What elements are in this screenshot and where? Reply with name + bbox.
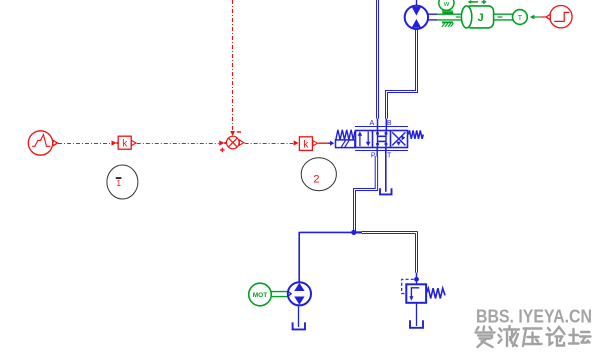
shaft: inertia to torque sensor <box>494 14 513 20</box>
svg-text:T: T <box>387 153 392 160</box>
svg-text:MOT: MOT <box>253 292 267 299</box>
arrowhead into summer <box>219 140 224 145</box>
direction arrow above J <box>468 0 487 4</box>
speed sensor w <box>439 0 454 13</box>
char 坛 <box>569 329 591 344</box>
rotary load J (inertia) <box>461 6 493 28</box>
minus sign at summer top input <box>237 131 241 133</box>
arrowhead into k1 <box>112 140 117 145</box>
gain block k2 <box>299 137 317 151</box>
junction node (relief pilot tap) <box>414 277 419 282</box>
svg-text:B: B <box>387 120 392 127</box>
svg-text:A: A <box>369 120 374 127</box>
pipe A: valve port A up to top edge (double line) <box>377 0 379 131</box>
gain block k1 <box>118 136 136 149</box>
char 压 <box>523 329 542 347</box>
proportional valve U1: solenoid box <box>336 140 355 148</box>
main supply line (horizontal, double) <box>300 232 418 234</box>
signal source W1 (duty-cycle input, left) <box>28 131 57 155</box>
rotary ground hatch under shaft <box>442 22 453 26</box>
valve right position: crossed arrows <box>392 132 405 145</box>
char 论 <box>547 327 565 346</box>
shaft: MOT to pump <box>271 292 288 297</box>
prime mover MOT <box>249 283 272 306</box>
torque sensor T <box>513 10 528 25</box>
summing junction (comparator) <box>227 136 244 149</box>
pipe: supply down to pump <box>298 232 300 283</box>
svg-text:BBS. IYEYA.CN: BBS. IYEYA.CN <box>476 306 592 327</box>
wire: k2 to valve solenoid (red then blue arrow) <box>318 142 328 144</box>
pipe B: valve port B up, over to motor bottom (double line) <box>386 29 418 130</box>
wire: source to gain k1 (dash-dot red) <box>58 143 111 145</box>
svg-text:J: J <box>477 12 483 24</box>
arrowhead into k2 <box>294 140 299 145</box>
shaft: motor to inertia (blue stub then green) <box>428 14 462 20</box>
tank T1 (under valve T port) <box>380 188 392 194</box>
wire: feedback vertical dash-dot into summer top <box>232 0 234 131</box>
hydraulic motor M1 <box>405 0 428 29</box>
hydraulic pump P1 <box>288 282 311 305</box>
svg-text:2: 2 <box>313 173 319 185</box>
watermark Chinese 爱液压论坛 <box>476 326 591 347</box>
tank T3 (under relief valve) <box>410 320 423 328</box>
valve body rails <box>355 126 408 128</box>
pipe T: valve port T down to tank <box>385 148 387 192</box>
pipe through valve centre box <box>378 130 387 147</box>
relief valve RV1 body <box>406 284 426 303</box>
svg-text:T: T <box>518 13 523 22</box>
valve centre position: blocked ports <box>376 132 387 145</box>
relief valve pilot line (dashed) <box>402 279 414 293</box>
plus sign at summer input <box>220 148 225 153</box>
tank T2 (under pump) <box>293 322 305 329</box>
proportional valve U1: left spring <box>336 130 355 140</box>
annotation circle 2 <box>301 158 336 191</box>
valve body 3 position boxes <box>356 131 408 148</box>
wire: summer to gain k2 (dash-dot red) <box>245 143 294 145</box>
pipe: relief valve to tank <box>416 303 418 326</box>
pipe: supply down to relief valve <box>416 232 418 280</box>
relief valve spring (right) <box>426 288 445 298</box>
wire: k1 to summing junction (dash-dot red) <box>137 143 219 145</box>
valve right spring <box>408 130 423 139</box>
annotation circle 1 <box>107 165 138 199</box>
step signal source (top right) <box>546 6 572 28</box>
svg-text:w: w <box>443 0 450 8</box>
pipe: pump to tank <box>298 306 300 328</box>
pipe P: valve port P down, left, down to junction <box>354 148 378 232</box>
char 爱 <box>476 327 495 348</box>
char 液 <box>499 326 520 346</box>
wire: step source to torque sensor (red then green arrow) <box>541 16 546 18</box>
svg-text:1: 1 <box>116 178 121 188</box>
junction node (P line / supply) <box>351 230 356 235</box>
valve left position: parallel arrows <box>358 131 371 146</box>
